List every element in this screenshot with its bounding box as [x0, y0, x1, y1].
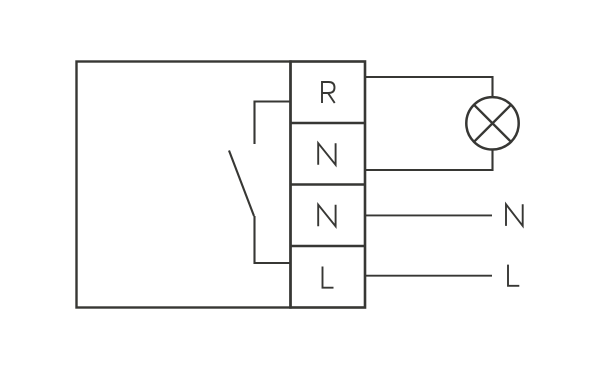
wire R terminal to lamp	[365, 77, 493, 97]
supply L label	[508, 265, 519, 286]
wire lamp to N terminal	[365, 150, 493, 171]
device box	[77, 62, 291, 308]
switch wire to L terminal	[255, 216, 291, 263]
terminal R label	[322, 82, 335, 103]
terminal divider R/N	[291, 122, 366, 125]
terminal divider N/N	[291, 183, 366, 186]
terminal N label (lamp return)	[318, 143, 335, 165]
terminal block outline	[291, 62, 366, 308]
supply N label	[506, 204, 523, 226]
lamp circle	[466, 97, 518, 149]
lamp cross stroke 1	[474, 105, 511, 142]
wire N terminal to supply	[365, 214, 492, 216]
terminal N label (supply neutral)	[318, 205, 335, 227]
switch blade	[229, 151, 254, 217]
lamp cross stroke 2	[474, 105, 511, 142]
terminal divider N/L	[291, 245, 366, 248]
switch wire to R terminal	[255, 102, 291, 145]
wire L terminal to supply	[365, 275, 492, 277]
terminal L label	[323, 267, 334, 288]
